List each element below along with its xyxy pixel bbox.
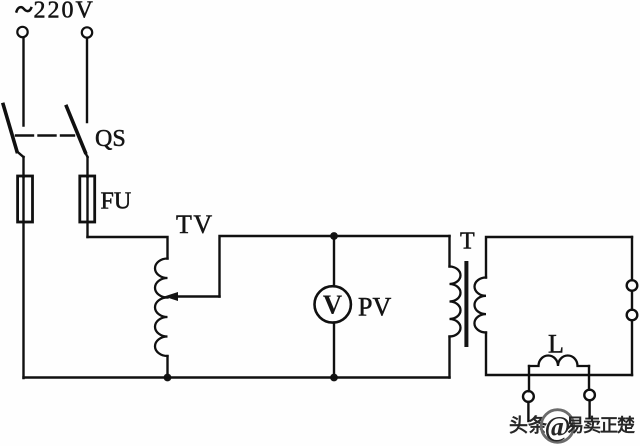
- wire switch1 to fuse1: [22, 157, 24, 177]
- transformer T primary top lead: [448, 236, 450, 267]
- svg-text:QS: QS: [95, 126, 126, 152]
- switch QS pole 2 blade: [67, 107, 86, 153]
- junction PV-bottom: [330, 374, 338, 382]
- tap wiper arrow of TV: [164, 292, 178, 301]
- wire PV top lead: [333, 236, 335, 286]
- svg-text:T: T: [460, 229, 475, 255]
- svg-text:V: V: [323, 290, 343, 320]
- wire L1 down to switch: [22, 38, 24, 126]
- inductor L winding: [529, 356, 589, 367]
- wire L2 down to switch: [86, 38, 88, 122]
- fuse FU1 element wire: [22, 177, 24, 222]
- transformer T secondary bottom lead: [486, 333, 632, 376]
- autotransformer TV winding upper bumps: [155, 259, 168, 298]
- wire L left stub: [528, 366, 530, 391]
- wire PV bottom lead: [333, 323, 335, 378]
- wire left branch down to bottom bus: [22, 222, 24, 378]
- junction TV-bottom: [164, 374, 172, 382]
- transformer T primary winding: [450, 267, 461, 337]
- wire L right stub: [588, 366, 590, 390]
- wire below right terminal: [588, 400, 590, 418]
- terminal right upper: [627, 280, 638, 291]
- wire right side upper: [631, 237, 633, 280]
- svg-text:FU: FU: [101, 189, 132, 215]
- transformer T core bar: [464, 261, 468, 347]
- terminal right lower: [627, 310, 638, 321]
- fuse FU1 body: [18, 176, 33, 222]
- fuse FU2 element wire: [86, 177, 88, 222]
- label ~220V: [17, 7, 32, 11]
- transformer T primary bottom lead: [448, 337, 450, 378]
- svg-text:PV: PV: [358, 293, 391, 322]
- terminal L left: [523, 391, 534, 402]
- watermark: [509, 410, 635, 443]
- terminal L2: [82, 27, 92, 37]
- wire below left terminal: [527, 402, 529, 421]
- svg-text:易卖正楚: 易卖正楚: [566, 415, 635, 436]
- svg-text:L: L: [548, 330, 564, 359]
- transformer T secondary top lead: [486, 237, 632, 278]
- wire right side lower: [631, 320, 633, 375]
- wire fuse2 down to corner: [86, 222, 88, 237]
- switch QS pole 1 blade: [3, 105, 17, 152]
- svg-text:220V: 220V: [34, 0, 95, 24]
- wire TV bottom to bus: [166, 356, 168, 378]
- transformer T secondary winding: [474, 278, 486, 333]
- autotransformer TV winding lower bumps: [155, 298, 168, 357]
- terminal L1: [17, 27, 27, 37]
- svg-text:TV: TV: [176, 210, 214, 239]
- bottom bus wire: [24, 376, 450, 378]
- switch QS coupling dashed link: [16, 134, 74, 136]
- wire switch2 to fuse2: [86, 157, 88, 177]
- terminal L right: [584, 390, 595, 401]
- wire tap up and right to bus: [220, 236, 450, 297]
- junction PV-top: [330, 232, 338, 240]
- fuse FU2 body: [80, 176, 95, 222]
- voltmeter PV circle: [315, 286, 351, 322]
- wire corner to TV top: [88, 237, 168, 259]
- wire between right terminals: [631, 291, 633, 310]
